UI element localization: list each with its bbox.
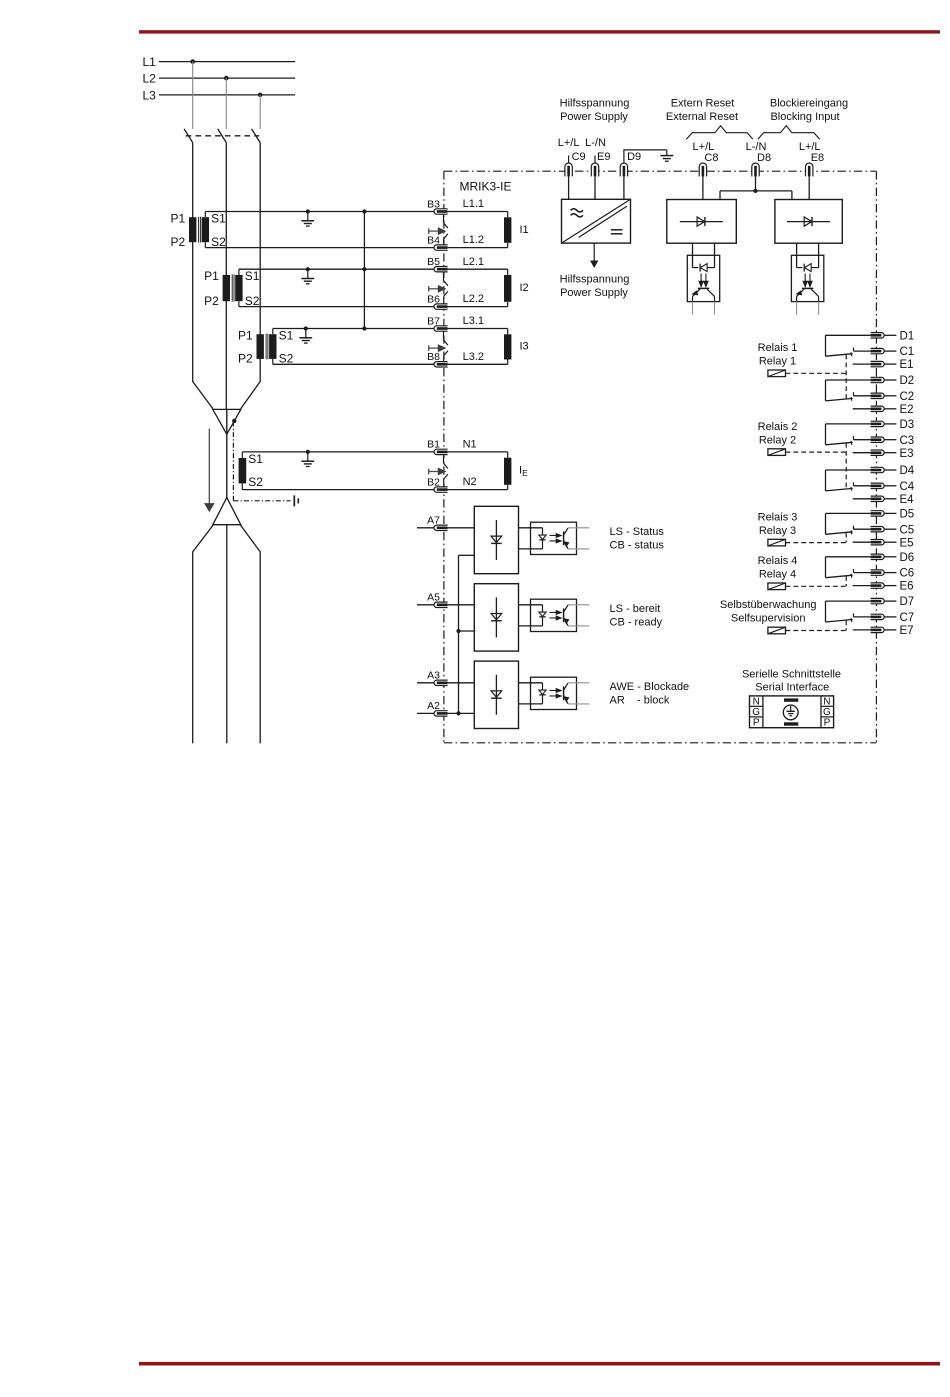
serial interface screen bar bottom [784,722,798,725]
cable cone lower triangle [213,498,241,525]
svg-text:P: P [824,718,831,729]
junction on L1 [190,59,195,64]
wire B3 to burden [448,211,508,213]
svg-text:D9: D9 [627,151,641,163]
junction on L2 [224,76,229,81]
svg-text:P2: P2 [238,352,253,366]
relay coil Relay 2 [768,449,786,456]
terminal E3 [871,450,885,455]
wire C8 into reset box [702,176,704,199]
wire B6 to burden [448,306,508,308]
circuit breaker pole 1 [184,129,193,143]
svg-text:S1: S1 [211,211,226,225]
svg-text:N: N [823,697,830,708]
svg-text:Relay 2: Relay 2 [759,434,796,446]
ground earth-fault circuit [306,450,310,454]
current transformer phase L3 [257,334,264,359]
svg-text:P2: P2 [204,294,219,308]
svg-text:Blocking Input: Blocking Input [770,111,839,123]
svg-text:S1: S1 [279,328,294,342]
chassis ground [293,495,295,506]
terminal C3 [871,437,885,442]
CB ready input box [474,584,518,651]
wire S2-B2 [242,489,434,491]
terminal E7 [871,627,885,632]
terminal A7 [417,527,434,529]
terminal B2 [434,487,448,492]
circuit breaker pole 2 [218,129,227,143]
svg-text:N: N [753,697,760,708]
wire E8 into blocking box [808,176,810,199]
feeder phase 2 wire [225,143,227,410]
svg-text:B3: B3 [427,198,440,210]
svg-text:CB - ready: CB - ready [610,617,663,629]
terminal C9 stub [568,156,570,164]
wire B4 to burden [448,247,508,249]
svg-text:AWE - Blockade: AWE - Blockade [610,681,690,693]
svg-text:C3: C3 [900,435,915,447]
svg-text:C7: C7 [900,612,915,624]
svg-text:I1: I1 [520,224,529,236]
Relay 3 contact [826,512,871,514]
svg-text:L3.2: L3.2 [463,351,484,363]
svg-text:P2: P2 [171,235,186,249]
wire L3 dropper [259,95,261,129]
svg-text:LS - Status: LS - Status [610,526,665,538]
svg-text:Power Supply: Power Supply [560,287,628,299]
earth at D9 [666,150,668,156]
svg-text:L-/N: L-/N [585,137,606,149]
svg-text:MRIK3-IE: MRIK3-IE [460,180,512,194]
svg-text:E8: E8 [811,152,824,164]
Relay 2 actuation link [786,451,847,453]
blocking input optocoupler [791,255,823,301]
junction D8 [753,189,757,193]
terminal D2 [871,377,885,382]
svg-text:C5: C5 [900,524,915,536]
svg-text:L3.1: L3.1 [463,315,484,327]
wire S1-B1 [242,451,434,453]
wire D9 to earth [624,150,667,163]
svg-text:B7: B7 [427,315,440,327]
terminal B8 [434,362,448,367]
wire S1-B3 [205,211,434,213]
svg-text:S2: S2 [248,475,263,489]
svg-text:S2: S2 [245,294,260,308]
wire L2 dropper [225,78,227,129]
terminal E4 [871,496,885,501]
terminal A2 [417,712,434,714]
svg-text:B5: B5 [427,256,440,268]
svg-text:B6: B6 [427,293,440,305]
relay coil Relay 1 [768,370,786,377]
svg-text:N2: N2 [463,476,477,488]
wire S2-B6 [239,306,434,308]
svg-text:P1: P1 [171,211,186,225]
wire E9 into PSU [594,176,596,199]
terminal C6 [871,570,885,575]
terminal D9 [620,163,627,176]
svg-text:E2: E2 [900,404,914,416]
svg-text:B8: B8 [427,351,440,363]
input burden I2 [504,275,511,302]
terminal C8 stub [702,162,704,164]
svg-text:G: G [823,707,831,718]
Relay 4 actuation link [786,585,847,587]
shield earth link [232,422,234,501]
svg-text:E5: E5 [900,537,914,549]
Relay 1 actuation link [786,372,847,374]
svg-text:Power Supply: Power Supply [560,111,628,123]
svg-text:S1: S1 [248,452,263,466]
terminal D1 [871,333,885,338]
CB status input box optocoupler [531,522,577,554]
blocking rectifier box [775,200,842,244]
MRIK3-IE enclosure border [443,171,445,743]
svg-text:Relais 4: Relais 4 [758,555,798,567]
terminal C5 [871,527,885,532]
Selfsupervision contact [826,600,871,602]
terminal B4 [434,245,448,250]
svg-text:Extern Reset: Extern Reset [671,97,735,109]
Selfsupervision actuation link [786,630,847,632]
svg-text:CB - status: CB - status [610,540,665,552]
shorting switch B7/B8 [443,332,445,340]
terminal B7 [434,326,448,331]
svg-text:I3: I3 [520,341,529,353]
svg-text:Relay 3: Relay 3 [759,525,796,537]
wire B2 to burden [448,489,508,491]
svg-text:C9: C9 [572,151,586,163]
svg-text:D3: D3 [900,419,915,431]
star-point bus wire [363,212,365,329]
terminal E9 [594,162,596,164]
wire B8 to burden [448,363,508,365]
svg-text:Selbstüberwachung: Selbstüberwachung [720,599,817,611]
svg-text:Blockiereingang: Blockiereingang [770,97,848,109]
svg-text:L2: L2 [143,72,157,86]
wire A2 into block input [448,712,475,714]
terminal B1 [434,449,448,454]
terminal E8 [808,162,810,164]
AR block input box [474,661,518,728]
Relay 4 contact [826,556,871,558]
svg-text:B1: B1 [427,439,440,451]
current transformer phase L1 [189,217,196,242]
svg-text:S2: S2 [211,235,226,249]
relay coil Selfsupervision [768,627,786,634]
svg-text:Relais 1: Relais 1 [758,342,798,354]
svg-text:E6: E6 [900,581,914,593]
svg-text:C4: C4 [900,481,915,493]
svg-text:D6: D6 [900,552,915,564]
svg-text:LS - bereit: LS - bereit [610,603,661,615]
input burden I1 [504,217,511,243]
Relay 2 contact a [826,423,871,425]
svg-text:Serielle Schnittstelle: Serielle Schnittstelle [742,668,841,680]
svg-text:L2.2: L2.2 [463,293,484,305]
wire S1-B5 [239,268,434,270]
svg-text:D1: D1 [900,330,915,342]
svg-text:D5: D5 [900,509,915,521]
terminal A3 [417,682,434,684]
svg-text:E7: E7 [900,625,914,637]
junction on L3 [258,93,263,98]
svg-text:L-/N: L-/N [746,141,767,153]
cable sheath right [240,525,260,744]
svg-text:G: G [752,707,760,718]
external reset optocoupler [687,255,719,301]
junction on cable shield [232,419,236,423]
current direction arrow [208,429,210,504]
terminal C7 [871,614,885,619]
shorting switch B5/B6 [443,272,445,280]
relay coil Relay 3 [768,539,786,546]
svg-text:B4: B4 [427,234,440,246]
input burden IE [504,458,511,485]
wire D9 into PSU [623,176,625,199]
serial interface box [750,696,834,728]
svg-text:L1.2: L1.2 [463,234,484,246]
wire S2-B8 [273,363,434,365]
svg-text:B2: B2 [427,476,440,488]
cable middle line [226,525,228,744]
svg-text:A7: A7 [427,515,440,527]
AR block input box optocoupler [531,677,577,709]
svg-text:L3: L3 [143,89,157,103]
svg-text:C2: C2 [900,391,915,403]
Relay 3 actuation link [786,542,847,544]
external reset rectifier box [667,200,737,244]
terminal C2 [871,393,885,398]
terminal D5 [871,511,885,516]
svg-text:E1: E1 [900,359,914,371]
terminal D6 [871,554,885,559]
svg-text:Relais 3: Relais 3 [758,511,798,523]
terminal C1 [871,348,885,353]
svg-text:L+/L: L+/L [558,137,580,149]
svg-text:D7: D7 [900,596,915,608]
svg-text:E3: E3 [900,448,914,460]
wire S1-B7 [273,328,434,330]
svg-text:C6: C6 [900,568,915,580]
wire B7 to burden [448,328,508,330]
svg-text:Relay 1: Relay 1 [759,356,796,368]
svg-text:P1: P1 [204,269,219,283]
svg-text:D8: D8 [757,152,771,164]
power supply unit U1 [562,199,631,243]
cable core line [226,409,228,497]
terminal E1 [871,361,885,366]
svg-text:Hilfsspannung: Hilfsspannung [560,273,630,285]
svg-text:L2.1: L2.1 [463,256,484,268]
svg-text:Serial Interface: Serial Interface [755,682,829,694]
svg-text:P: P [753,718,760,729]
input burden I3 [504,334,511,359]
junction star L2 [362,267,366,271]
svg-text:L1.1: L1.1 [463,198,484,210]
wire B1 to burden [448,451,508,453]
junction bus A2 [456,711,460,715]
svg-text:N1: N1 [463,439,477,451]
feeder phase 1 wire [193,143,213,409]
shorting switch B1/B2 [443,455,445,463]
serial interface earth circle [783,705,798,720]
ground CT L2 [306,267,310,271]
svg-text:C8: C8 [704,152,718,164]
terminal E6 [871,583,885,588]
terminal E5 [871,540,885,545]
terminal E9 stub [594,156,596,164]
terminal B5 [434,267,448,272]
junction star L1 [362,209,366,213]
terminal B3 [434,209,448,214]
wire C9 into PSU [568,176,570,199]
junction bus A5 [456,629,460,633]
terminal D4 [871,467,885,472]
terminal E8 stub [808,162,810,164]
svg-text:External Reset: External Reset [666,111,738,123]
CB status input box [474,506,518,573]
terminal E2 [871,406,885,411]
Relay 1 contact a [826,334,871,336]
wire B5 to burden [448,268,508,270]
cable cone upper triangle [213,409,241,434]
terminal C8 [702,162,704,164]
feeder phase 3 wire [241,143,261,409]
terminal A5 [417,604,434,606]
terminal B6 [434,304,448,309]
Relay 2 contact b [826,469,871,471]
svg-text:S1: S1 [245,269,260,283]
svg-text:E9: E9 [597,151,610,163]
svg-text:Selfsupervision: Selfsupervision [731,613,806,625]
cable sheath left [193,525,214,744]
terminal D7 [871,598,885,603]
terminal D3 [871,421,885,426]
wire D8 branch [755,176,757,191]
wire A7 into status input [448,527,475,529]
terminal D8 stub [755,162,757,164]
svg-text:Relay 4: Relay 4 [759,569,796,581]
svg-text:L1: L1 [143,55,157,69]
brace external reset [686,126,753,140]
breaker linkage [186,135,260,137]
svg-text:Relais 2: Relais 2 [758,421,798,433]
svg-text:L+/L: L+/L [799,141,821,153]
ground CT L3 [304,326,308,330]
svg-text:Hilfsspannung: Hilfsspannung [560,97,630,109]
current transformer phase L2 [223,275,230,301]
svg-text:S2: S2 [279,352,294,366]
svg-text:P1: P1 [238,328,253,342]
svg-text:A5: A5 [427,592,440,604]
binary input common bus [458,555,460,713]
wire S2-B4 [205,247,434,249]
core balance CT [239,458,247,483]
CB ready input box optocoupler [531,599,577,631]
svg-text:D2: D2 [900,375,915,387]
brace blocking input [758,126,820,140]
svg-text:A3: A3 [427,670,440,682]
relay coil Relay 4 [768,583,786,590]
terminal D8 [755,162,757,164]
PSU output arrow [593,243,595,261]
terminal C4 [871,483,885,488]
serial interface screen bar top [784,698,798,701]
Relay 1 contact b [826,379,871,381]
wire A5 into ready input [448,604,476,606]
svg-text:C1: C1 [900,346,915,358]
svg-text:I2: I2 [520,282,529,294]
wire L1 dropper [192,62,194,129]
svg-text:D4: D4 [900,465,915,477]
shorting switch B3/B4 [443,215,445,223]
wire A3 into block input [448,682,475,684]
svg-text:A2: A2 [427,700,440,712]
svg-text:E4: E4 [900,494,915,506]
junction star L3 [362,326,366,330]
terminal C9 [568,162,570,164]
svg-text:L+/L: L+/L [693,141,715,153]
svg-text:AR - block: AR - block [610,695,670,707]
circuit breaker pole 3 [252,129,261,143]
ground CT L1 [306,209,310,213]
